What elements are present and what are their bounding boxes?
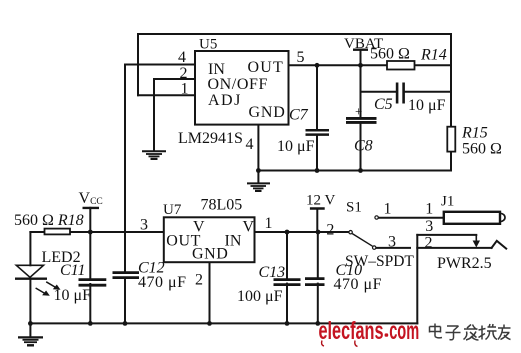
wire C7 bottom	[316, 135, 318, 171]
wire C11 top	[89, 232, 91, 279]
node 12V tap	[316, 230, 321, 235]
wire C7 top	[316, 65, 318, 129]
svg-text:C5: C5	[374, 96, 393, 113]
svg-text:C13: C13	[259, 264, 286, 281]
svg-text:560 Ω R18: 560 Ω R18	[14, 212, 84, 229]
switch S1 lever	[352, 234, 372, 247]
svg-text:560 Ω: 560 Ω	[462, 141, 502, 158]
ground (pin2 of U5)	[142, 151, 166, 159]
wire S1 throw3 line	[376, 247, 410, 249]
node rail C13	[285, 321, 290, 326]
capacitor C8	[346, 118, 377, 122]
svg-text:5: 5	[297, 49, 305, 66]
svg-text:elecfans: elecfans	[319, 317, 384, 345]
svg-text:3: 3	[140, 217, 148, 234]
hanzi 友	[498, 325, 511, 340]
ground (U5 GND)	[247, 183, 270, 191]
svg-text:1: 1	[181, 81, 189, 98]
svg-text:4: 4	[246, 136, 254, 153]
capacitor C5	[397, 83, 404, 104]
svg-text:C7: C7	[289, 107, 309, 124]
svg-text:2: 2	[425, 235, 433, 252]
svg-text:1: 1	[384, 201, 392, 218]
svg-text:com: com	[389, 317, 419, 345]
svg-text:C8: C8	[354, 138, 373, 155]
svg-text:2: 2	[180, 65, 188, 82]
svg-text:R15: R15	[461, 125, 488, 142]
wire U5 GND pin down	[257, 125, 259, 171]
wire R14 right to ADJ vertical	[415, 64, 452, 66]
node C7 gnd	[315, 168, 320, 173]
svg-text:ADJ: ADJ	[208, 92, 242, 109]
switch S1 pole contact	[349, 231, 352, 234]
svg-text:SW–SPDT: SW–SPDT	[345, 253, 414, 270]
node rail C12	[123, 321, 128, 326]
wire 12V stem	[316, 209, 318, 233]
svg-text:R14: R14	[420, 47, 447, 64]
wire top rail ADJ loop	[138, 34, 451, 95]
hanzi 烧	[479, 324, 498, 340]
svg-text:ON/OFF: ON/OFF	[208, 76, 269, 93]
wire C10 bottom	[317, 284, 319, 324]
node U5 gnd	[256, 168, 261, 173]
wire J1 sleeve zigzag	[492, 241, 507, 249]
wire ON/OFF pin2	[154, 78, 195, 80]
capacitor C12	[113, 273, 140, 278]
wire U7 GND pin	[209, 262, 211, 323]
wire Vcc stem	[89, 208, 91, 232]
wire C13 bottom	[286, 284, 288, 324]
svg-text:GND: GND	[192, 246, 228, 263]
wire C8 bottom	[360, 122, 362, 170]
wire OUT pin5	[289, 64, 388, 66]
svg-text:GND: GND	[249, 104, 286, 121]
node rail LED	[28, 321, 33, 326]
wire J1 pin2 line	[417, 247, 491, 249]
wire R15 to ground rail	[450, 152, 452, 171]
svg-text:S1: S1	[346, 200, 362, 216]
svg-text:PWR2.5: PWR2.5	[437, 255, 492, 272]
hanzi 子	[446, 326, 461, 340]
node Vcc	[88, 230, 93, 235]
wire J1 pin3 line	[417, 234, 476, 236]
wire Vcc rail left	[30, 231, 44, 233]
switch S1 throw3 contact	[373, 246, 376, 249]
svg-text:78L05: 78L05	[201, 197, 243, 214]
wire S1 throw1 to J1	[379, 217, 444, 219]
wire ADJ pin1	[138, 94, 195, 96]
wire bottom rail	[30, 322, 417, 324]
resistor R14	[387, 61, 415, 70]
svg-text:1: 1	[425, 201, 433, 218]
LED2 diode	[15, 265, 47, 278]
svg-text:3: 3	[388, 234, 396, 251]
svg-text:100 μF: 100 μF	[237, 288, 283, 305]
wire C5 right	[404, 91, 451, 93]
capacitor C11	[79, 280, 107, 286]
svg-text:2: 2	[195, 272, 203, 289]
svg-text:U5: U5	[199, 37, 217, 53]
wire C10 top	[317, 232, 319, 278]
capacitor C10	[305, 279, 325, 285]
svg-text:470 μF: 470 μF	[334, 276, 382, 293]
svg-text:2: 2	[326, 222, 334, 239]
capacitor C13	[274, 280, 301, 285]
node C8 gnd	[358, 168, 363, 173]
node C7 tap	[315, 63, 320, 68]
node VBAT tap	[358, 63, 363, 68]
node rail C11	[88, 321, 93, 326]
wire ADJ vertical to R15	[450, 34, 452, 127]
wire J1 return vertical	[416, 235, 418, 324]
svg-text:U7: U7	[163, 202, 182, 218]
svg-text:12 V: 12 V	[306, 193, 335, 209]
wire pin2 to ground	[153, 79, 155, 151]
switch S1 throw1 contact	[375, 216, 378, 219]
wire C13 top	[286, 232, 288, 279]
svg-text:10 μF: 10 μF	[408, 97, 446, 114]
wire C5 left	[361, 91, 397, 93]
wire C12 to bottom rail	[124, 278, 126, 324]
svg-text:1: 1	[265, 215, 273, 232]
wire U7 pin1 to switch	[255, 231, 349, 233]
wire VBAT stem	[360, 50, 362, 66]
logo Chinese 电子发烧友 (hand-drawn strokes)	[430, 324, 511, 341]
svg-text:4: 4	[178, 49, 186, 66]
svg-text:3: 3	[425, 218, 433, 235]
wire top ground rail	[258, 170, 451, 172]
svg-text:J1: J1	[441, 194, 454, 210]
wire VBAT down to C8	[360, 65, 362, 117]
ground (bottom left)	[18, 337, 43, 345]
wire ground stem G3	[29, 323, 31, 337]
J1 plug arrow	[475, 235, 477, 242]
regulator U7 78L05 body	[164, 217, 255, 262]
node C13 tap	[285, 230, 290, 235]
regulator U5 LM2941S body	[195, 51, 289, 125]
wire LED to bottom	[29, 279, 31, 324]
svg-text:LM2941S: LM2941S	[178, 130, 243, 147]
node rail U7gnd	[207, 321, 212, 326]
wire C11 bottom	[89, 284, 91, 323]
svg-text:470 μF: 470 μF	[138, 274, 186, 291]
svg-text:OUT: OUT	[248, 59, 284, 76]
svg-text:LED2: LED2	[42, 249, 81, 266]
wire Vcc rail mid	[70, 231, 164, 233]
resistor R18	[45, 229, 71, 235]
svg-text:V: V	[243, 219, 255, 236]
svg-text:10 μF: 10 μF	[277, 138, 315, 155]
hanzi 电	[430, 324, 443, 338]
wire LED branch down	[29, 232, 31, 265]
hanzi 发	[464, 325, 479, 341]
svg-text:+: +	[355, 104, 362, 119]
capacitor C7	[306, 130, 330, 134]
wire IN pin4	[125, 64, 195, 66]
node rail C10	[315, 321, 320, 326]
wire pin4 down to C12	[124, 65, 126, 273]
LED2 arrows	[36, 282, 61, 296]
wire ground stem G1	[257, 171, 259, 184]
resistor R15	[447, 127, 455, 152]
logo separator dash	[385, 333, 389, 336]
logo flourishes	[322, 341, 358, 347]
